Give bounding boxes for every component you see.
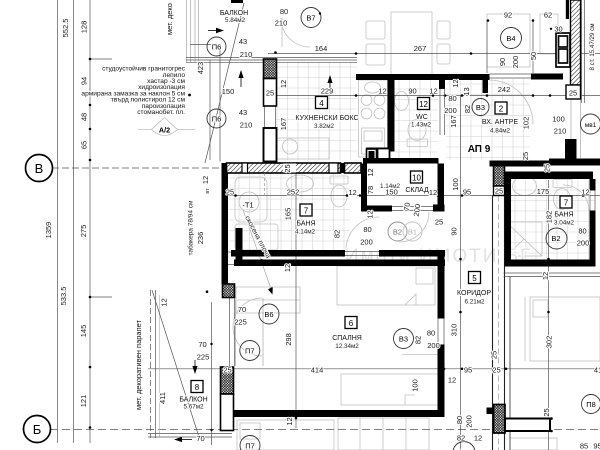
svg-text:вт: вт <box>205 188 211 194</box>
svg-text:165: 165 <box>284 208 293 221</box>
svg-text:200: 200 <box>465 415 474 428</box>
door circle V3 bedroom <box>394 329 414 349</box>
kitchen-wc divider wall <box>388 80 395 148</box>
svg-text:82: 82 <box>414 336 423 344</box>
svg-text:90: 90 <box>498 58 507 66</box>
bottom-left hatched column <box>221 367 234 394</box>
bedroom rug bottom <box>341 374 440 405</box>
dim line y368.5 <box>148 368 600 370</box>
svg-text:5.67м2: 5.67м2 <box>183 404 204 411</box>
svg-text:табакера 78/94 см: табакера 78/94 см <box>187 200 195 256</box>
arrow balcony top <box>208 28 224 33</box>
stair wall notch up <box>565 139 577 159</box>
svg-text:WC: WC <box>416 114 428 121</box>
svg-text:10: 10 <box>412 174 421 183</box>
svg-text:В: В <box>35 161 44 176</box>
svg-text:12: 12 <box>201 176 210 184</box>
svg-text:267: 267 <box>414 44 427 53</box>
svg-text:В3: В3 <box>399 335 408 344</box>
bathroom south wall right part <box>379 250 445 257</box>
bath2 right wall lower <box>590 211 596 260</box>
box 10 <box>411 171 423 183</box>
svg-text:-Т1: -Т1 <box>242 201 253 210</box>
skl bottom-right L <box>433 205 445 212</box>
svg-text:25: 25 <box>435 218 443 227</box>
balcony inner edge line <box>219 45 221 162</box>
svg-text:200: 200 <box>444 106 457 115</box>
bathroom1 door arc B2 <box>346 217 379 250</box>
svg-text:4: 4 <box>319 99 324 108</box>
kitchen lower counter <box>276 138 329 159</box>
door circle P8 <box>582 395 600 414</box>
axis circle V <box>26 155 53 182</box>
box 12 <box>418 98 430 110</box>
svg-text:П7: П7 <box>245 347 255 356</box>
svg-text:12: 12 <box>429 188 437 197</box>
svg-text:12.34м2: 12.34м2 <box>335 343 359 350</box>
bottom-left white box <box>221 394 234 431</box>
svg-text:12: 12 <box>419 100 428 109</box>
bathroom inner stub wall <box>236 228 243 266</box>
svg-text:182: 182 <box>545 211 554 224</box>
svg-text:236: 236 <box>196 232 205 245</box>
svg-text:200: 200 <box>577 239 590 248</box>
svg-text:6: 6 <box>349 319 354 328</box>
box 7 bath1 <box>300 204 312 216</box>
bottom-right small black square <box>487 408 494 415</box>
svg-text:2: 2 <box>499 105 504 114</box>
top wall chord entrance right <box>531 74 563 80</box>
A/2 marker <box>138 118 195 136</box>
left column lower hatch <box>264 128 277 162</box>
svg-text:95: 95 <box>463 188 471 197</box>
arrow down kitchen window <box>327 75 332 90</box>
left column white box 25 <box>264 79 277 107</box>
stub at entrance door <box>483 80 489 93</box>
left dimension chain verticals <box>58 0 91 443</box>
svg-text:3.04м2: 3.04м2 <box>554 220 575 227</box>
balcony east rail lines <box>230 298 235 366</box>
svg-text:80: 80 <box>455 416 464 424</box>
svg-text:225: 225 <box>197 353 210 362</box>
svg-text:70: 70 <box>238 305 246 314</box>
svg-text:414: 414 <box>311 366 324 375</box>
black cap at band left corner <box>222 163 229 173</box>
svg-text:150: 150 <box>385 188 398 197</box>
double arrows at bedroom wall gap <box>250 249 270 264</box>
svg-text:25: 25 <box>226 188 234 197</box>
svg-text:167: 167 <box>449 115 458 128</box>
svg-text:78: 78 <box>366 186 375 194</box>
door circle P7 <box>240 341 260 361</box>
svg-text:25: 25 <box>521 152 530 160</box>
box 7 bath2 <box>560 196 572 208</box>
svg-text:П7: П7 <box>245 442 255 450</box>
svg-text:128: 128 <box>80 21 89 34</box>
entrance door gap <box>490 73 532 75</box>
svg-text:90: 90 <box>450 227 459 235</box>
svg-text:225: 225 <box>234 318 247 327</box>
svg-text:БАНЯ: БАНЯ <box>554 212 573 219</box>
shaft dashed edge <box>264 173 266 196</box>
window circle V4 <box>501 28 522 49</box>
svg-text:25: 25 <box>223 366 231 375</box>
bathroom1 sink <box>287 175 314 192</box>
svg-text:КУХНЕНСКИ БОКС: КУХНЕНСКИ БОКС <box>295 115 358 122</box>
svg-text:В6: В6 <box>264 310 273 319</box>
exterior left wall <box>222 173 229 285</box>
stub down right of wc door <box>439 80 445 89</box>
skl door arc <box>399 212 429 242</box>
bath2 bottom wall <box>505 260 596 267</box>
svg-text:12: 12 <box>448 376 456 385</box>
box 5 <box>469 272 481 284</box>
svg-text:В2: В2 <box>551 234 560 243</box>
svg-text:КОРИДОР: КОРИДОР <box>457 290 491 297</box>
svg-text:мв1: мв1 <box>585 122 597 129</box>
stair south wall <box>549 159 600 166</box>
skl bottom-left wall <box>361 206 392 212</box>
band hatch right part <box>345 163 362 173</box>
dim vertical x296 <box>295 165 297 428</box>
skosena plocha leader line <box>243 210 272 290</box>
bathroom2 floor grid <box>505 180 595 261</box>
kitchen counter <box>359 80 388 157</box>
dim vertical x533 top <box>532 20 534 73</box>
svg-text:П8: П8 <box>586 400 596 409</box>
dim line y95.5 <box>264 95 455 97</box>
black cap in band <box>340 163 345 173</box>
25 box below stair column <box>566 85 581 99</box>
corridor right wall double line <box>493 196 505 450</box>
axis line Bottom horizontal <box>50 429 600 431</box>
bathroom1 washing machine <box>235 224 278 250</box>
dim line balcony doors <box>211 302 213 445</box>
svg-text:210: 210 <box>240 50 253 59</box>
svg-text:25: 25 <box>542 408 551 416</box>
right room west wall line <box>509 277 511 450</box>
svg-text:БАЛКОН: БАЛКОН <box>179 397 207 404</box>
25 box below right column <box>494 186 505 196</box>
balcony dim line 423 <box>209 60 211 160</box>
spec text block <box>81 65 185 117</box>
svg-text:12: 12 <box>348 188 356 197</box>
svg-text:В4: В4 <box>506 34 515 43</box>
svg-text:мет. декоративен парапет: мет. декоративен парапет <box>134 319 143 410</box>
svg-text:80: 80 <box>448 94 456 103</box>
svg-text:80: 80 <box>427 329 435 338</box>
svg-text:533.5: 533.5 <box>59 287 68 306</box>
svg-text:СПАЛНЯ: СПАЛНЯ <box>332 335 362 342</box>
svg-text:275: 275 <box>79 225 88 238</box>
svg-text:94: 94 <box>80 77 89 85</box>
svg-text:12: 12 <box>581 188 589 197</box>
bottom-right hatch block <box>494 405 506 434</box>
svg-text:102: 102 <box>522 117 531 130</box>
bathroom1 shower cabin <box>235 177 267 222</box>
bath2 door gap <box>589 191 591 211</box>
skl right wall <box>438 164 445 212</box>
bedroom wardrobe left <box>236 287 300 313</box>
svg-text:150: 150 <box>222 87 235 96</box>
svg-text:5.84м2: 5.84м2 <box>225 17 246 24</box>
svg-text:4.14м2: 4.14м2 <box>295 229 316 236</box>
dining chairs top left <box>366 21 450 65</box>
skl left wall <box>361 164 367 206</box>
svg-text:82: 82 <box>333 230 342 238</box>
bedroom door gap <box>437 319 439 345</box>
entrance door swing arc <box>490 80 534 124</box>
white piece of band <box>329 163 338 173</box>
balcony bottom edge lines <box>148 434 232 438</box>
appliance box top right <box>556 33 570 67</box>
svg-text:65: 65 <box>80 141 89 149</box>
skl door gap <box>392 206 433 208</box>
svg-text:210: 210 <box>275 19 288 28</box>
door circle P6 lower <box>207 109 226 128</box>
svg-text:302: 302 <box>545 336 554 349</box>
svg-text:411: 411 <box>158 392 167 404</box>
lower apartment bed bottom left <box>237 420 334 450</box>
box 6 <box>345 317 357 329</box>
window circle V6 <box>259 304 279 324</box>
svg-text:1359: 1359 <box>44 222 53 239</box>
svg-text:12: 12 <box>378 87 386 96</box>
bedroom bed top <box>337 266 435 305</box>
svg-text:310: 310 <box>450 324 459 337</box>
door circle P6 top <box>207 37 226 56</box>
right room bed <box>525 297 600 361</box>
svg-text:П6: П6 <box>212 115 222 124</box>
dimension dots <box>89 19 585 429</box>
svg-text:200: 200 <box>412 203 423 217</box>
white gap 25 in band <box>283 164 296 173</box>
svg-text:3.82м2: 3.82м2 <box>314 123 335 130</box>
duct box white <box>378 149 390 163</box>
svg-text:В7: В7 <box>306 14 315 23</box>
svg-text:12: 12 <box>366 210 375 218</box>
kitchen floor grid <box>276 62 357 160</box>
axis circle B bottom <box>24 416 51 443</box>
wc door gap <box>439 87 441 135</box>
lower apartment wardrobe <box>338 418 429 450</box>
wc sink <box>395 92 409 111</box>
wc bottom wall <box>366 148 395 152</box>
balcony slab edge segment <box>190 44 211 46</box>
left arrow bottom balcony <box>174 437 192 442</box>
svg-text:80: 80 <box>280 7 288 16</box>
door circle V2 bath1 <box>388 222 407 241</box>
svg-text:252: 252 <box>287 188 300 197</box>
bath2 door arc <box>563 185 589 211</box>
svg-text:121: 121 <box>79 395 88 408</box>
svg-text:145: 145 <box>79 325 88 338</box>
svg-text:БАЛКОН: БАЛКОН <box>220 10 248 17</box>
svg-text:12: 12 <box>451 79 460 87</box>
svg-text:13: 13 <box>462 87 471 95</box>
slope diagonal bottom balcony <box>152 290 199 437</box>
bedroom right wall upper <box>438 257 445 319</box>
svg-text:12: 12 <box>474 434 482 443</box>
svg-text:95: 95 <box>464 366 472 375</box>
svg-text:210: 210 <box>554 127 567 136</box>
stairwell hatch column <box>571 0 581 85</box>
svg-text:12: 12 <box>279 80 288 88</box>
svg-text:100: 100 <box>411 379 420 392</box>
svg-text:БАНЯ: БАНЯ <box>296 221 315 228</box>
box 8 <box>191 381 203 393</box>
svg-text:В1: В1 <box>408 228 417 237</box>
svg-text:242: 242 <box>498 85 511 94</box>
svg-text:50: 50 <box>529 52 538 60</box>
svg-text:30: 30 <box>554 25 562 34</box>
dim vertical x548.5 <box>548 180 550 450</box>
dim vertical x460.5 <box>460 96 462 450</box>
svg-text:80: 80 <box>363 225 371 234</box>
window circle V7 <box>301 8 321 28</box>
door/window opening thin lines <box>227 74 595 345</box>
svg-text:стоманобет. пл.: стоманобет. пл. <box>137 108 185 116</box>
duct box black <box>367 149 377 163</box>
door circle V2 bottom <box>453 442 475 450</box>
svg-text:552.5: 552.5 <box>61 19 70 38</box>
bedroom north wall <box>234 260 445 267</box>
arrow bottom balcony <box>192 360 197 374</box>
short wall right of column <box>490 161 550 167</box>
svg-text:200: 200 <box>427 341 440 350</box>
svg-text:41: 41 <box>594 366 600 375</box>
top wall chord kitchen/wc <box>356 74 445 80</box>
hatched band over bathroom <box>227 163 341 173</box>
svg-text:12: 12 <box>366 168 375 176</box>
svg-text:100: 100 <box>451 178 460 191</box>
svg-text:82: 82 <box>463 105 472 113</box>
bathroom1 toilet <box>330 176 348 207</box>
svg-text:А/2: А/2 <box>159 126 170 135</box>
bottom-right white box wall <box>505 419 550 432</box>
slope diagonal top balcony <box>205 3 244 163</box>
svg-text:12: 12 <box>285 417 294 425</box>
bath2 toilet <box>553 180 572 210</box>
bathroom south wall left part <box>231 250 345 257</box>
bed edge line <box>402 354 440 356</box>
wc toilet <box>407 120 428 147</box>
svg-text:85: 85 <box>580 442 588 450</box>
door circle V3 entrance <box>472 99 489 116</box>
wall band under wc <box>363 158 439 164</box>
dim line y195.5 <box>222 195 600 197</box>
svg-text:12: 12 <box>160 298 169 306</box>
circle mv1 <box>581 114 600 134</box>
svg-text:5: 5 <box>472 274 477 283</box>
dining table <box>391 12 432 76</box>
svg-text:423: 423 <box>196 62 205 75</box>
svg-text:43: 43 <box>239 108 247 117</box>
white box in band <box>242 163 248 173</box>
svg-text:25: 25 <box>543 164 552 172</box>
bath2 north wall <box>505 172 594 180</box>
svg-text:8 ст. 15.47/29 см: 8 ст. 15.47/29 см <box>589 24 596 71</box>
svg-text:Б: Б <box>33 422 42 437</box>
svg-text:62: 62 <box>544 11 552 20</box>
black cap top edge balcony <box>231 0 243 3</box>
balcony top door swing arc <box>281 18 310 47</box>
svg-text:43: 43 <box>239 37 247 46</box>
window gap left column <box>264 106 266 127</box>
svg-text:25: 25 <box>492 366 500 375</box>
svg-text:100: 100 <box>552 115 565 124</box>
dim vertical x487 top <box>486 20 488 73</box>
svg-text:12: 12 <box>429 87 437 96</box>
right hatched column (corridor top) <box>494 162 505 186</box>
svg-text:175: 175 <box>537 187 550 196</box>
door circle V2 bath2 <box>546 228 567 249</box>
svg-text:7: 7 <box>304 207 309 216</box>
bath2 shower <box>506 222 542 256</box>
hatch block at balcony door <box>223 284 235 298</box>
svg-text:298: 298 <box>284 333 293 346</box>
bath2 right wall stub top <box>590 179 596 191</box>
svg-text:1.43м2: 1.43м2 <box>411 122 432 129</box>
bath2 sink <box>513 177 537 196</box>
svg-text:ВХ. АНТРЕ: ВХ. АНТРЕ <box>482 119 519 126</box>
door circle P7 bottom <box>240 436 260 450</box>
door circle V1 bath1 (light) <box>403 222 422 241</box>
box 4 <box>316 97 328 109</box>
svg-text:12: 12 <box>283 264 292 272</box>
svg-text:95: 95 <box>593 442 600 450</box>
left hatched column top <box>264 59 277 79</box>
wc floor grid <box>395 79 438 158</box>
svg-text:7: 7 <box>564 199 569 208</box>
svg-text:25: 25 <box>283 164 292 172</box>
svg-text:АП 9: АП 9 <box>468 144 491 155</box>
svg-text:12: 12 <box>541 272 550 280</box>
svg-text:П6: П6 <box>212 43 222 52</box>
svg-text:92: 92 <box>504 11 512 20</box>
svg-text:80: 80 <box>578 227 586 236</box>
balcony rail lines top <box>187 0 199 62</box>
svg-text:70: 70 <box>402 202 412 212</box>
svg-text:СКЛАД: СКЛАД <box>405 187 429 194</box>
axis line B horizontal <box>52 167 222 169</box>
svg-text:200: 200 <box>511 56 520 69</box>
svg-text:70: 70 <box>198 340 206 349</box>
box 2 <box>495 102 507 114</box>
balcony door gap bedroom <box>227 251 235 253</box>
bedroom right wall lower <box>438 345 445 418</box>
svg-text:25: 25 <box>495 187 503 196</box>
bedroom balcony door arcs <box>233 298 262 327</box>
right room top double line <box>504 273 600 277</box>
black bar left of stair column <box>566 0 569 19</box>
bath2 left wall <box>505 179 512 260</box>
entrance floor grid <box>446 79 530 160</box>
top wall chord entrance left <box>445 74 490 80</box>
svg-text:В3: В3 <box>476 103 485 112</box>
kitchen round table <box>283 139 298 154</box>
svg-text:200: 200 <box>360 238 373 247</box>
sideboard top right <box>487 14 530 67</box>
svg-text:мет. деко: мет. деко <box>165 3 174 35</box>
svg-text:210: 210 <box>240 121 253 130</box>
bath1 door gap <box>345 251 379 253</box>
bedroom bottom wall <box>234 410 445 417</box>
svg-text:167: 167 <box>279 118 288 131</box>
stairwell lower thin lines <box>571 99 581 158</box>
right room furniture bottom <box>510 438 557 450</box>
kitchen window sill lines <box>186 58 357 63</box>
